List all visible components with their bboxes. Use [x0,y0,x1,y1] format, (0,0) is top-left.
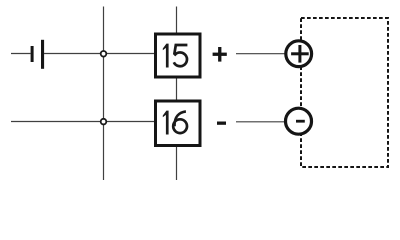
node N2: open junction on bottom wire [101,119,107,125]
pin label 16: digit 1 [163,111,169,135]
wire W5: vertical line above box 15 [176,7,178,34]
wire W7: vertical line below box 16 [176,147,178,181]
polarity label + [213,47,227,62]
external unit dashed enclosure [301,18,388,167]
wire W6: vertical link between box 15 and box 16 [176,78,178,100]
wire W3: bottom row lead to terminal box 16 [11,121,155,123]
pin label 16: digit 6 [173,111,187,133]
terminal box 15 [156,34,201,77]
terminal box 16 [156,101,201,146]
terminal T-: minus terminal circle [286,108,312,134]
pin label 15: digit 1 [163,44,169,68]
battery B1 long plate (positive) [41,40,44,69]
wire W4: vertical bus line left [103,7,105,181]
pin label 15: digit 5 [174,45,188,66]
battery B1 short plate (negative) [31,46,34,62]
wire W2: battery to terminal box 15, top row [44,53,155,55]
polarity label - [217,122,226,125]
wire W1: left lead into battery, top row [11,53,31,55]
node N1: open junction on top wire [101,51,107,57]
wire W9: to - terminal [236,121,286,123]
terminal T+: plus terminal circle [286,41,312,67]
wire W8: to + terminal [236,53,286,55]
